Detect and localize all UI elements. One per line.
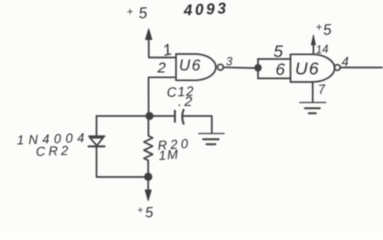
svg-text:CR2: CR2 (36, 143, 72, 159)
svg-text:2: 2 (157, 60, 167, 77)
svg-text:+: + (126, 6, 134, 19)
svg-text:14: 14 (315, 44, 329, 57)
svg-text:.2: .2 (178, 93, 195, 109)
svg-text:+: + (137, 205, 144, 216)
svg-text:5: 5 (274, 42, 284, 61)
svg-text:5: 5 (322, 21, 332, 39)
svg-text:6: 6 (276, 60, 286, 79)
svg-text:4093: 4093 (182, 0, 229, 19)
svg-text:4: 4 (342, 54, 349, 69)
svg-text:5: 5 (138, 5, 148, 23)
svg-text:U6: U6 (179, 58, 202, 75)
svg-text:7: 7 (317, 81, 327, 97)
svg-text:5: 5 (144, 205, 154, 222)
svg-text:U6: U6 (295, 59, 320, 79)
svg-text:3: 3 (226, 57, 233, 69)
svg-text:1M: 1M (158, 147, 179, 163)
